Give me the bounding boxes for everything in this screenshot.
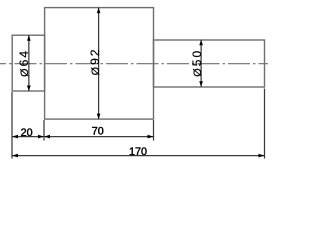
svg-text:20: 20 xyxy=(21,127,33,139)
svg-text:170: 170 xyxy=(129,146,147,158)
dimension line 20/70 xyxy=(12,136,154,138)
svg-text:Ø50: Ø50 xyxy=(190,49,204,77)
arrows 70 xyxy=(44,135,50,139)
extension line x153.5 xyxy=(153,120,155,141)
shaft section Ø64 xyxy=(12,35,44,91)
svg-text:Ø92: Ø92 xyxy=(88,47,102,75)
svg-text:Ø64: Ø64 xyxy=(17,49,31,77)
extension line left x12 xyxy=(11,92,13,159)
arrows 20 xyxy=(12,135,18,139)
dimension line Ø92 xyxy=(98,8,100,120)
extension line x44 xyxy=(43,120,45,141)
dimension line 170 xyxy=(12,155,265,157)
dimension line Ø50 xyxy=(200,40,202,87)
shaft section Ø92 xyxy=(45,8,154,120)
dimension line Ø64 xyxy=(28,35,30,91)
extension line right x264.5 xyxy=(264,89,266,159)
svg-text:70: 70 xyxy=(92,126,104,138)
shaft section Ø50 xyxy=(154,40,265,87)
centerline xyxy=(0,63,268,65)
